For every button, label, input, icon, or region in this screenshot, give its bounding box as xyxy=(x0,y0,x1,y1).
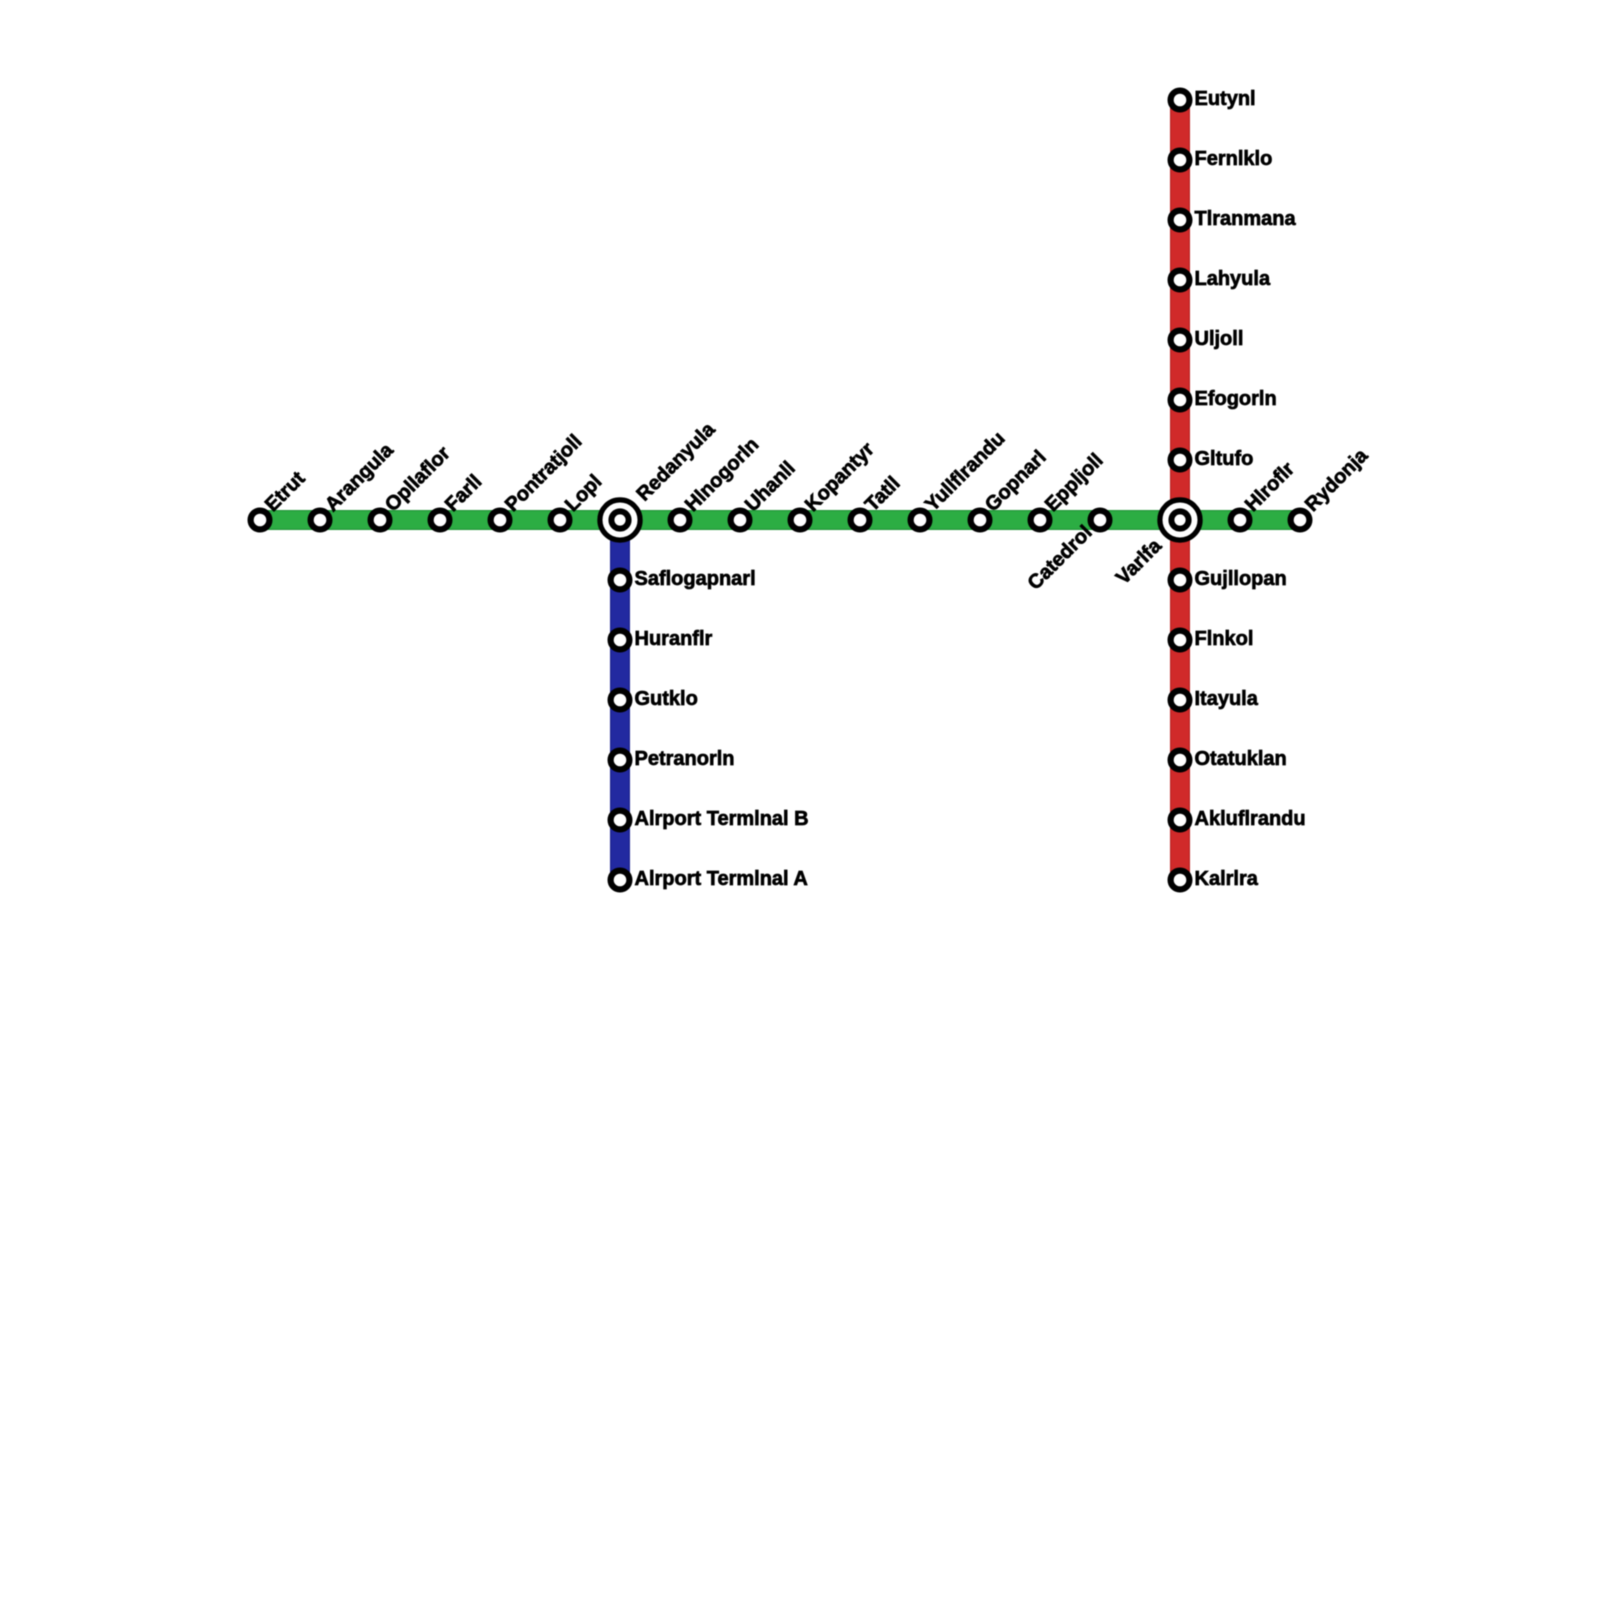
svg-text:Uljoll: Uljoll xyxy=(1195,328,1244,350)
station Flnkol xyxy=(1171,631,1190,650)
svg-text:Lahyula: Lahyula xyxy=(1195,268,1271,290)
svg-text:Gujllopan: Gujllopan xyxy=(1195,568,1287,590)
station Lopl xyxy=(551,511,570,530)
station Uljoll xyxy=(1171,331,1190,350)
station Saflogapnarl xyxy=(611,571,630,590)
station Rydonja xyxy=(1291,511,1310,530)
station Eutynl xyxy=(1171,91,1190,110)
svg-text:Fernlklo: Fernlklo xyxy=(1195,148,1273,170)
svg-text:Akluflrandu: Akluflrandu xyxy=(1195,808,1306,830)
svg-text:Saflogapnarl: Saflogapnarl xyxy=(635,568,756,590)
station Itayula xyxy=(1171,691,1190,710)
station Gutklo xyxy=(611,691,630,710)
svg-text:Alrport Termlnal A: Alrport Termlnal A xyxy=(635,868,808,890)
svg-text:Gutklo: Gutklo xyxy=(635,688,698,710)
station Tatll xyxy=(851,511,870,530)
station Lahyula xyxy=(1171,271,1190,290)
station Petranorln xyxy=(611,751,630,770)
station Gujllopan xyxy=(1171,571,1190,590)
svg-text:Huranflr: Huranflr xyxy=(635,628,713,650)
interchange station Varlfa xyxy=(1160,500,1200,540)
svg-text:Eutynl: Eutynl xyxy=(1195,88,1256,110)
svg-text:Gltufo: Gltufo xyxy=(1195,448,1254,470)
station Huranflr xyxy=(611,631,630,650)
station Fernlklo xyxy=(1171,151,1190,170)
blue line xyxy=(611,520,630,880)
green line xyxy=(260,511,1300,530)
station Tlranmana xyxy=(1171,211,1190,230)
svg-text:Petranorln: Petranorln xyxy=(635,748,735,770)
station Hlnogorln xyxy=(671,511,690,530)
station Efogorln xyxy=(1171,391,1190,410)
svg-text:Tlranmana: Tlranmana xyxy=(1195,208,1297,230)
station Eppljoll xyxy=(1031,511,1050,530)
svg-text:Flnkol: Flnkol xyxy=(1195,628,1254,650)
station Kalrlra xyxy=(1171,871,1190,890)
station Akluflrandu xyxy=(1171,811,1190,830)
station Opllaflor xyxy=(371,511,390,530)
station Gopnarl xyxy=(971,511,990,530)
station Pontratjoll xyxy=(491,511,510,530)
station Catedrol xyxy=(1091,511,1110,530)
station Alrport Termlnal A xyxy=(611,871,630,890)
station Yullflrandu xyxy=(911,511,930,530)
station Uhanll xyxy=(731,511,750,530)
station Farll xyxy=(431,511,450,530)
station Alrport Termlnal B xyxy=(611,811,630,830)
svg-text:Otatuklan: Otatuklan xyxy=(1195,748,1287,770)
svg-text:Itayula: Itayula xyxy=(1195,688,1259,710)
station Etrut xyxy=(251,511,270,530)
station Gltufo xyxy=(1171,451,1190,470)
station Hlroflr xyxy=(1231,511,1250,530)
red line xyxy=(1171,100,1190,880)
interchange station Redanyula xyxy=(600,500,640,540)
svg-text:Alrport Termlnal B: Alrport Termlnal B xyxy=(635,808,809,830)
station Arangula xyxy=(311,511,330,530)
svg-text:Kalrlra: Kalrlra xyxy=(1195,868,1259,890)
station Otatuklan xyxy=(1171,751,1190,770)
station Kopantyr xyxy=(791,511,810,530)
svg-text:Efogorln: Efogorln xyxy=(1195,388,1277,410)
